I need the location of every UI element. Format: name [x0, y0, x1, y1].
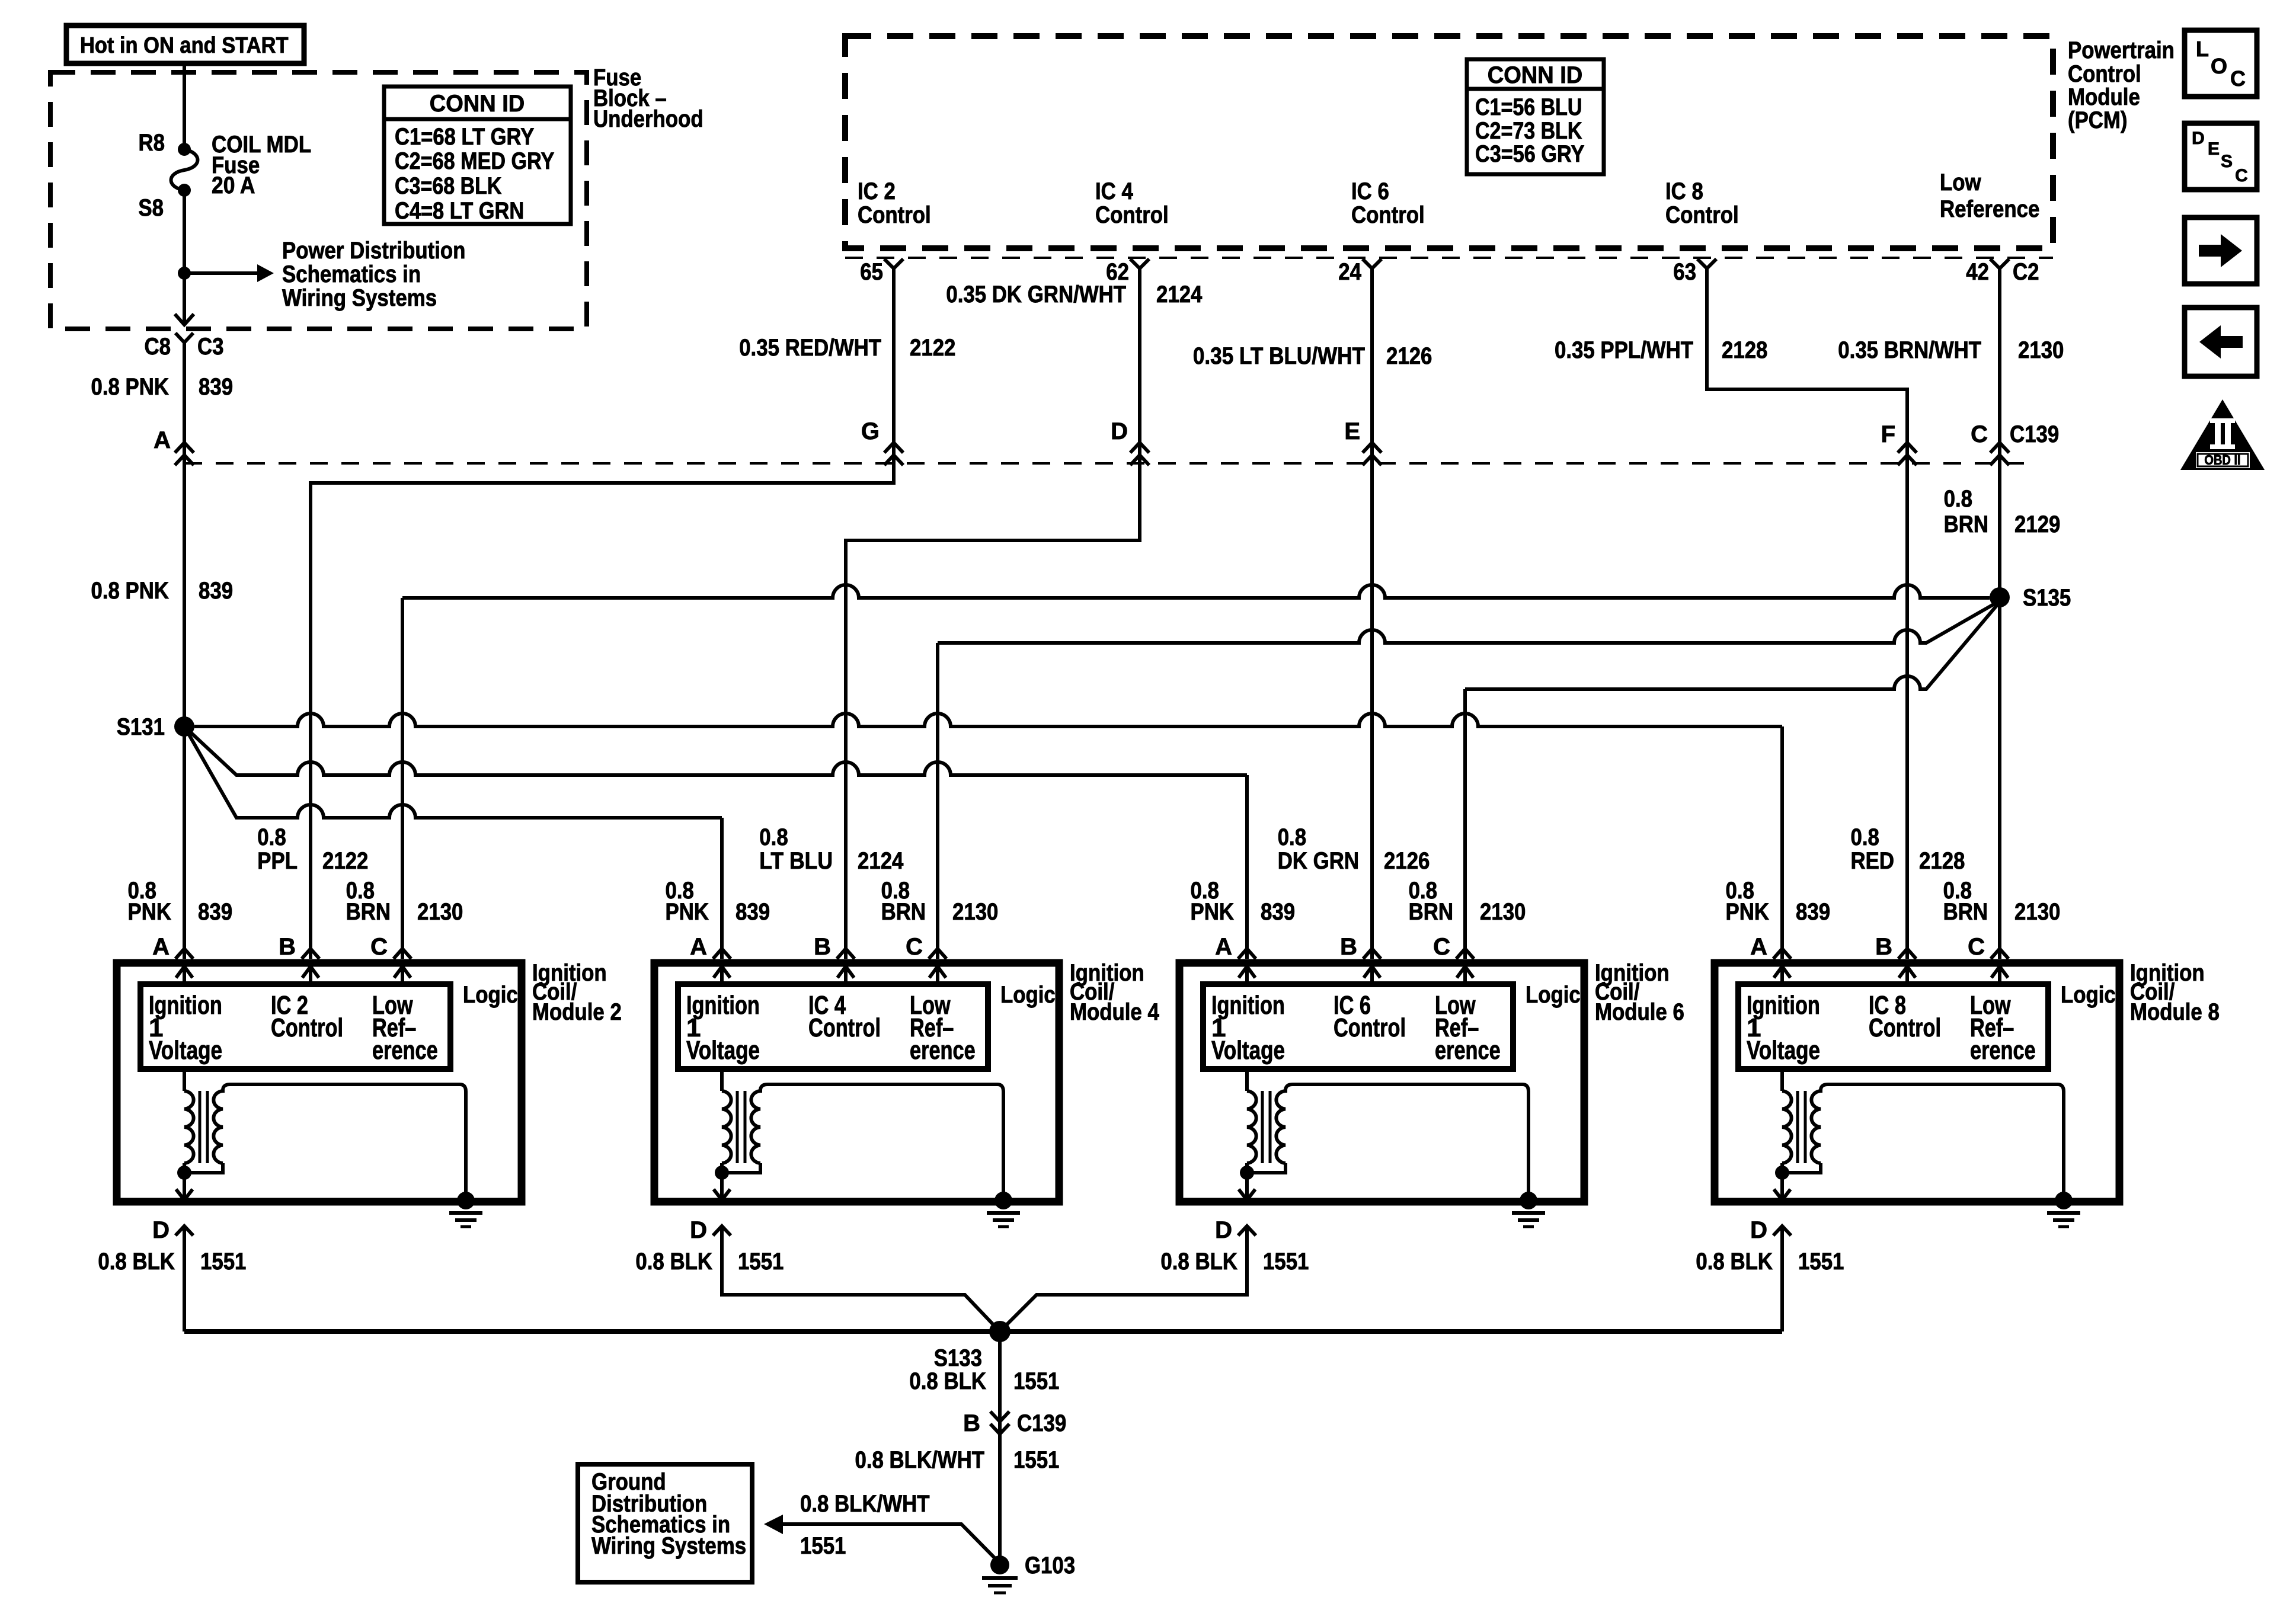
wire label 0.8 BRN 2130 at coil 2 pin C	[346, 878, 463, 925]
svg-text:LT BLU: LT BLU	[759, 848, 833, 874]
wire BRN low reference bus to coil 6 pin C	[1465, 602, 2000, 689]
svg-text:D: D	[1111, 418, 1128, 444]
wire label 0.8 BLK 1551 at coil 4 pin D	[635, 1249, 784, 1275]
svg-text:IC 4: IC 4	[1095, 178, 1133, 204]
wire label 0.8 BLK 1551 at coil 2 pin D	[98, 1249, 246, 1275]
svg-text:63: 63	[1673, 259, 1696, 285]
wire 2128 PPL/WHT: PCM 63 through C139 F to coil 8 pin B	[1707, 268, 1907, 959]
svg-text:C: C	[1433, 934, 1450, 960]
fuse block name label	[593, 65, 703, 132]
PCM pin 24 connector	[1363, 259, 1382, 268]
transformer T2 primary	[183, 1069, 186, 1091]
wire label 0.8 BRN 2130 at coil 8 pin C	[1943, 878, 2061, 925]
svg-text:0.35 LT BLU/WHT: 0.35 LT BLU/WHT	[1193, 343, 1365, 369]
wire label 0.8 PNK 839 at coil 6 pin A	[1191, 878, 1296, 925]
svg-text:C: C	[1971, 421, 1988, 447]
svg-text:Powertrain: Powertrain	[2068, 37, 2175, 63]
wire S133 down to G103	[998, 1331, 1002, 1557]
svg-text:A: A	[154, 427, 171, 453]
svg-text:2122: 2122	[322, 848, 368, 874]
svg-text:A: A	[1215, 934, 1232, 960]
svg-text:0.8: 0.8	[1944, 486, 1972, 512]
icon arrow right	[2185, 217, 2257, 284]
PCM connector face dashed line	[845, 257, 2053, 259]
svg-text:D: D	[1750, 1217, 1767, 1243]
fuse block underhood dashed boundary	[50, 72, 587, 329]
svg-text:B: B	[1875, 934, 1892, 960]
svg-text:CONN ID: CONN ID	[430, 91, 525, 117]
internal ground G of module 2	[457, 1192, 475, 1209]
wire PNK 839 bus S131 to coil 8 pin A	[194, 713, 1782, 726]
internal ground G of module 6	[1520, 1192, 1537, 1209]
svg-text:A: A	[690, 934, 707, 960]
svg-text:PNK: PNK	[1726, 899, 1770, 925]
icon LOC	[2185, 30, 2257, 97]
svg-text:IC 2: IC 2	[858, 178, 896, 204]
ground distribution reference box	[578, 1464, 752, 1582]
wire BRN low reference bus to coil 4 pin C	[938, 601, 2000, 643]
svg-text:Voltage: Voltage	[686, 1036, 760, 1065]
transformer T4 primary	[720, 1069, 724, 1091]
svg-text:0.8: 0.8	[257, 824, 286, 850]
svg-text:IC 8: IC 8	[1665, 178, 1703, 204]
transformer T6 secondary	[1276, 1091, 1285, 1163]
svg-text:C: C	[2230, 66, 2246, 91]
connector C139 pin A	[154, 427, 194, 465]
icon OBD II triangle	[2180, 399, 2265, 470]
wire windings common to pin D of module 8	[1782, 1163, 1821, 1173]
terminal label R8	[139, 130, 165, 156]
transformer T4 secondary	[751, 1091, 760, 1163]
svg-text:1551: 1551	[800, 1533, 846, 1559]
wire secondary to internal ground of module 6	[1285, 1084, 1528, 1197]
wire label 0.8 LT BLU 2124 at coil 4 pin B	[759, 824, 904, 874]
PCM name label	[2068, 37, 2175, 133]
splice node S135	[1990, 585, 2071, 611]
svg-text:2122: 2122	[910, 335, 955, 361]
ignition coil/module 6 (U6)	[1179, 934, 1684, 1227]
wire BLK 1551 from coil 4 pin D	[722, 1226, 1000, 1331]
svg-text:Control: Control	[1351, 202, 1425, 228]
wire label 0.8 BRN 2130 at coil 6 pin C	[1409, 878, 1526, 925]
svg-text:C2: C2	[2013, 259, 2039, 285]
splice node S131	[117, 714, 194, 740]
svg-text:Logic: Logic	[2061, 982, 2116, 1008]
svg-text:1551: 1551	[1263, 1249, 1309, 1275]
svg-text:0.8 BLK/WHT: 0.8 BLK/WHT	[800, 1491, 930, 1517]
transformer T6 core	[1261, 1091, 1264, 1163]
svg-text:0.8: 0.8	[759, 824, 788, 850]
svg-text:S8: S8	[138, 195, 164, 221]
svg-text:BRN: BRN	[881, 899, 926, 925]
fuse block CONN ID table	[384, 87, 571, 224]
wire windings common to pin D of module 4	[722, 1163, 760, 1173]
svg-text:erence: erence	[910, 1036, 976, 1065]
svg-text:A: A	[152, 934, 170, 960]
wire 2122 RED/WHT: PCM 65 through C139 G to coil 2 pin B	[311, 268, 894, 959]
wire label 0.8 BRN 2130 at coil 4 pin C	[881, 878, 999, 925]
ignition coil/module 4 (U4)	[654, 934, 1159, 1227]
svg-text:C3=56 GRY: C3=56 GRY	[1475, 141, 1585, 167]
svg-text:G103: G103	[1025, 1553, 1075, 1579]
transformer T8 core	[1796, 1091, 1799, 1163]
transformer T2 secondary	[213, 1091, 223, 1163]
svg-text:BRN: BRN	[1944, 511, 1988, 537]
svg-text:Voltage: Voltage	[149, 1036, 222, 1065]
PCM pin 65 connector	[884, 259, 903, 268]
arrow out of fuse block	[175, 314, 194, 325]
connector pin D of coil 6	[1215, 1217, 1256, 1243]
svg-text:C: C	[370, 934, 388, 960]
svg-text:Hot in ON and START: Hot in ON and START	[80, 33, 289, 58]
PCM dashed boundary	[845, 36, 2053, 248]
svg-text:Wiring Systems: Wiring Systems	[591, 1533, 746, 1559]
wire BLK 1551 ground bus	[184, 1329, 1782, 1334]
svg-text:20 A: 20 A	[212, 172, 255, 199]
svg-text:Module 6: Module 6	[1595, 999, 1684, 1025]
svg-text:E: E	[2208, 139, 2220, 159]
svg-text:Module: Module	[2068, 84, 2140, 110]
svg-text:2129: 2129	[2014, 511, 2060, 537]
svg-text:PNK: PNK	[1191, 899, 1235, 925]
svg-text:Voltage: Voltage	[1747, 1036, 1820, 1065]
svg-text:D: D	[1215, 1217, 1232, 1243]
svg-text:Reference: Reference	[1940, 196, 2039, 222]
PCM pin function labels	[858, 169, 2039, 228]
svg-text:C2=73 BLK: C2=73 BLK	[1475, 118, 1582, 144]
svg-text:C2=68 MED GRY: C2=68 MED GRY	[395, 148, 555, 174]
svg-text:0.8 PNK: 0.8 PNK	[91, 578, 170, 604]
svg-text:C: C	[2235, 166, 2248, 185]
wire windings common to pin D of module 6	[1247, 1163, 1285, 1173]
svg-text:2130: 2130	[2014, 899, 2060, 925]
svg-text:S131: S131	[117, 714, 165, 740]
svg-text:839: 839	[199, 374, 233, 400]
svg-text:G: G	[861, 418, 880, 444]
svg-text:1551: 1551	[738, 1249, 784, 1275]
svg-text:S: S	[2221, 152, 2233, 171]
svg-text:C139: C139	[2010, 421, 2059, 447]
transformer T8 secondary	[1811, 1091, 1821, 1163]
svg-text:Control: Control	[1334, 1013, 1406, 1042]
svg-text:S133: S133	[934, 1345, 982, 1371]
ignition coil/module 2 (U2)	[117, 934, 622, 1227]
svg-text:L: L	[2196, 37, 2209, 61]
svg-text:PNK: PNK	[666, 899, 709, 925]
svg-text:C1=56 BLU: C1=56 BLU	[1475, 94, 1582, 120]
svg-text:Underhood: Underhood	[593, 106, 703, 132]
ignition coil/module 8 (U8)	[1715, 934, 2220, 1227]
wire secondary to internal ground of module 2	[223, 1084, 466, 1197]
svg-text:B: B	[963, 1410, 980, 1436]
wire label 0.8 PNK 839	[91, 374, 234, 400]
wire windings common to pin D of module 2	[184, 1163, 223, 1173]
wire 2130 BRN/WHT: PCM 42 through C139 C to S135 and coil 8 pin C	[1998, 268, 2001, 959]
transformer T4 core	[736, 1091, 739, 1163]
svg-text:Schematics in: Schematics in	[282, 261, 421, 287]
svg-text:(PCM): (PCM)	[2068, 107, 2128, 133]
wire label 0.8 PNK 839 at coil 8 pin A	[1726, 878, 1831, 925]
PCM pin 62 connector	[1130, 259, 1149, 268]
svg-text:Wiring Systems: Wiring Systems	[282, 285, 437, 311]
wire BLK 1551 from coil 6 pin D	[1000, 1226, 1247, 1331]
transformer T8 primary	[1780, 1069, 1784, 1091]
svg-text:1551: 1551	[1798, 1249, 1844, 1275]
svg-text:D: D	[152, 1217, 170, 1243]
svg-text:0.35 PPL/WHT: 0.35 PPL/WHT	[1555, 337, 1693, 363]
wire branch to power distribution reference	[184, 271, 257, 275]
wire label 0.8 PNK 839 below C139	[91, 578, 234, 604]
connector C139 pin B	[963, 1410, 1066, 1436]
svg-text:0.8 BLK: 0.8 BLK	[909, 1368, 986, 1394]
svg-text:D: D	[690, 1217, 707, 1243]
svg-text:Control: Control	[2068, 61, 2141, 87]
wire PNK 839 bus S131 to coil 4 pin A	[184, 726, 722, 818]
svg-text:DK GRN: DK GRN	[1278, 848, 1359, 874]
svg-text:BRN: BRN	[1943, 899, 1988, 925]
svg-text:0.8 BLK: 0.8 BLK	[1696, 1249, 1773, 1275]
svg-text:0.8: 0.8	[1851, 824, 1879, 850]
svg-text:D: D	[2192, 129, 2205, 148]
svg-text:0.35 RED/WHT: 0.35 RED/WHT	[739, 335, 881, 361]
svg-text:Control: Control	[808, 1013, 881, 1042]
wire label 0.8 DK GRN 2126 at coil 6 pin B	[1278, 824, 1430, 874]
wire label 0.8 PNK 839 at coil 2 pin A	[128, 878, 233, 925]
svg-text:RED: RED	[1851, 848, 1895, 874]
svg-text:1551: 1551	[1013, 1447, 1059, 1473]
svg-text:Control: Control	[1869, 1013, 1941, 1042]
svg-text:C3: C3	[197, 334, 224, 360]
svg-text:Control: Control	[1095, 202, 1169, 228]
svg-text:B: B	[1340, 934, 1357, 960]
svg-text:Low: Low	[1940, 169, 1981, 196]
wire label 0.8 BLK 1551 at coil 8 pin D	[1696, 1249, 1844, 1275]
svg-text:BRN: BRN	[346, 899, 391, 925]
svg-text:S135: S135	[2023, 585, 2071, 611]
wire label 0.8 BRN 2129	[1944, 486, 2061, 537]
svg-text:Logic: Logic	[463, 982, 518, 1008]
wire label 0.8 PNK 839 at coil 4 pin A	[666, 878, 770, 925]
wire label 0.8 BLK/WHT 1551	[855, 1447, 1060, 1473]
svg-text:Module 2: Module 2	[532, 999, 622, 1025]
internal ground G of module 8	[2055, 1192, 2073, 1209]
svg-text:2126: 2126	[1384, 848, 1430, 874]
svg-text:42: 42	[1966, 259, 1989, 285]
icon arrow left	[2185, 308, 2257, 376]
svg-text:2126: 2126	[1386, 343, 1432, 369]
svg-text:1551: 1551	[1013, 1368, 1059, 1394]
svg-text:839: 839	[1261, 899, 1295, 925]
connector label C2	[2013, 259, 2039, 285]
wire 2124 DK GRN/WHT: PCM 62 through C139 D to coil 4 pin B	[846, 268, 1140, 959]
fuse value label COIL MDL Fuse 20 A	[212, 132, 311, 199]
svg-text:Voltage: Voltage	[1211, 1036, 1285, 1065]
svg-text:0.8 BLK/WHT: 0.8 BLK/WHT	[855, 1447, 985, 1473]
svg-text:839: 839	[199, 578, 233, 604]
svg-text:Module 4: Module 4	[1070, 999, 1159, 1025]
svg-text:C139: C139	[1017, 1410, 1066, 1436]
svg-text:2124: 2124	[1156, 281, 1203, 308]
wire secondary to internal ground of module 4	[760, 1084, 1003, 1197]
connector pin D of coil 8	[1750, 1217, 1791, 1243]
svg-text:C8: C8	[145, 334, 171, 360]
transformer T6 primary	[1245, 1069, 1249, 1091]
svg-text:F: F	[1881, 421, 1895, 447]
svg-text:BRN: BRN	[1409, 899, 1453, 925]
svg-text:E: E	[1344, 418, 1360, 444]
svg-text:O: O	[2211, 54, 2227, 78]
svg-text:Module 8: Module 8	[2130, 999, 2220, 1025]
wire to ground distribution schematics	[764, 1515, 783, 1534]
wire label 0.8 PPL 2122 at coil 2 pin B	[257, 824, 368, 874]
svg-text:1551: 1551	[200, 1249, 246, 1275]
svg-text:Power Distribution: Power Distribution	[282, 238, 465, 264]
svg-text:PNK: PNK	[128, 899, 172, 925]
svg-text:0.35 DK GRN/WHT: 0.35 DK GRN/WHT	[946, 281, 1126, 308]
svg-text:0.8 PNK: 0.8 PNK	[91, 374, 170, 400]
terminal label S8	[138, 195, 164, 221]
svg-text:Control: Control	[271, 1013, 343, 1042]
fuse F COIL MDL 20A	[171, 143, 198, 197]
internal ground G of module 4	[994, 1192, 1012, 1209]
wire label 0.8 BLK 1551 below S133	[909, 1368, 1059, 1394]
svg-text:CONN ID: CONN ID	[1488, 62, 1583, 88]
svg-text:OBD II: OBD II	[2204, 452, 2240, 468]
svg-text:2130: 2130	[2018, 337, 2064, 363]
svg-text:65: 65	[860, 259, 883, 285]
svg-text:A: A	[1750, 934, 1767, 960]
wire PNK 839 bus S131 to coil 6 pin A	[184, 726, 1247, 775]
svg-text:PPL: PPL	[257, 848, 298, 874]
wire from Hot feed down to fuse R8	[183, 63, 186, 146]
splice node S133	[934, 1321, 1011, 1371]
svg-text:2128: 2128	[1919, 848, 1965, 874]
wire secondary to internal ground of module 8	[1821, 1084, 2064, 1197]
svg-text:839: 839	[198, 899, 232, 925]
svg-text:2130: 2130	[417, 899, 463, 925]
svg-text:0.8: 0.8	[1278, 824, 1306, 850]
wire 2126 LT BLU/WHT: PCM 24 through C139 E to coil 6 pin B	[1370, 268, 1374, 959]
svg-text:Control: Control	[858, 202, 931, 228]
svg-text:24: 24	[1338, 259, 1361, 285]
wire BLK 1551 from coil 8 pin D	[1780, 1226, 1784, 1331]
PCM pin 42 connector	[1990, 259, 2009, 268]
ground G103	[982, 1553, 1075, 1593]
icon DESC	[2185, 123, 2257, 190]
svg-text:C: C	[1968, 934, 1985, 960]
svg-text:B: B	[279, 934, 296, 960]
svg-text:0.35 BRN/WHT: 0.35 BRN/WHT	[1838, 337, 1981, 363]
svg-text:Logic: Logic	[1000, 982, 1056, 1008]
svg-text:839: 839	[736, 899, 770, 925]
wire BRN low reference bus to coil 2 pin C	[402, 585, 1990, 598]
svg-text:2130: 2130	[1480, 899, 1526, 925]
svg-text:C3=68 BLK: C3=68 BLK	[395, 173, 502, 199]
svg-text:C4=8 LT GRN: C4=8 LT GRN	[395, 198, 524, 224]
svg-text:C: C	[906, 934, 923, 960]
svg-text:erence: erence	[1970, 1036, 2036, 1065]
svg-text:erence: erence	[372, 1036, 438, 1065]
wire label 0.8 BLK 1551 at coil 6 pin D	[1160, 1249, 1309, 1275]
svg-text:0.8 BLK: 0.8 BLK	[98, 1249, 175, 1275]
svg-text:2124: 2124	[858, 848, 904, 874]
svg-text:2128: 2128	[1722, 337, 1767, 363]
svg-text:B: B	[814, 934, 831, 960]
svg-text:0.8 BLK: 0.8 BLK	[635, 1249, 712, 1275]
svg-text:0.8 BLK: 0.8 BLK	[1160, 1249, 1237, 1275]
svg-text:2130: 2130	[952, 899, 998, 925]
wire label 0.8 RED 2128 at coil 8 pin B	[1851, 824, 1965, 874]
connector pin D of coil 2	[152, 1217, 193, 1243]
junction on feed wire	[178, 267, 191, 280]
PCM CONN ID table	[1467, 59, 1604, 174]
connector C8/C3 split	[175, 333, 193, 343]
svg-text:C1=68 LT GRY: C1=68 LT GRY	[395, 124, 535, 150]
svg-text:Logic: Logic	[1526, 982, 1581, 1008]
transformer T2 core	[199, 1091, 202, 1163]
node label: Hot in ON and START box	[66, 25, 304, 63]
svg-text:erence: erence	[1435, 1036, 1501, 1065]
connector pin D of coil 4	[690, 1217, 731, 1243]
svg-text:Control: Control	[1665, 202, 1739, 228]
svg-text:R8: R8	[139, 130, 165, 156]
wire BLK 1551 from coil 2 pin D	[183, 1226, 186, 1331]
svg-text:IC 6: IC 6	[1351, 178, 1389, 204]
svg-text:839: 839	[1796, 899, 1830, 925]
wire 839 PNK down to coil 2 pin A	[183, 343, 186, 959]
connector C139 dashed body line	[184, 462, 2027, 465]
PCM pin 63 connector	[1697, 259, 1716, 268]
wire fuse S8 down to fuse block exit	[183, 190, 186, 324]
